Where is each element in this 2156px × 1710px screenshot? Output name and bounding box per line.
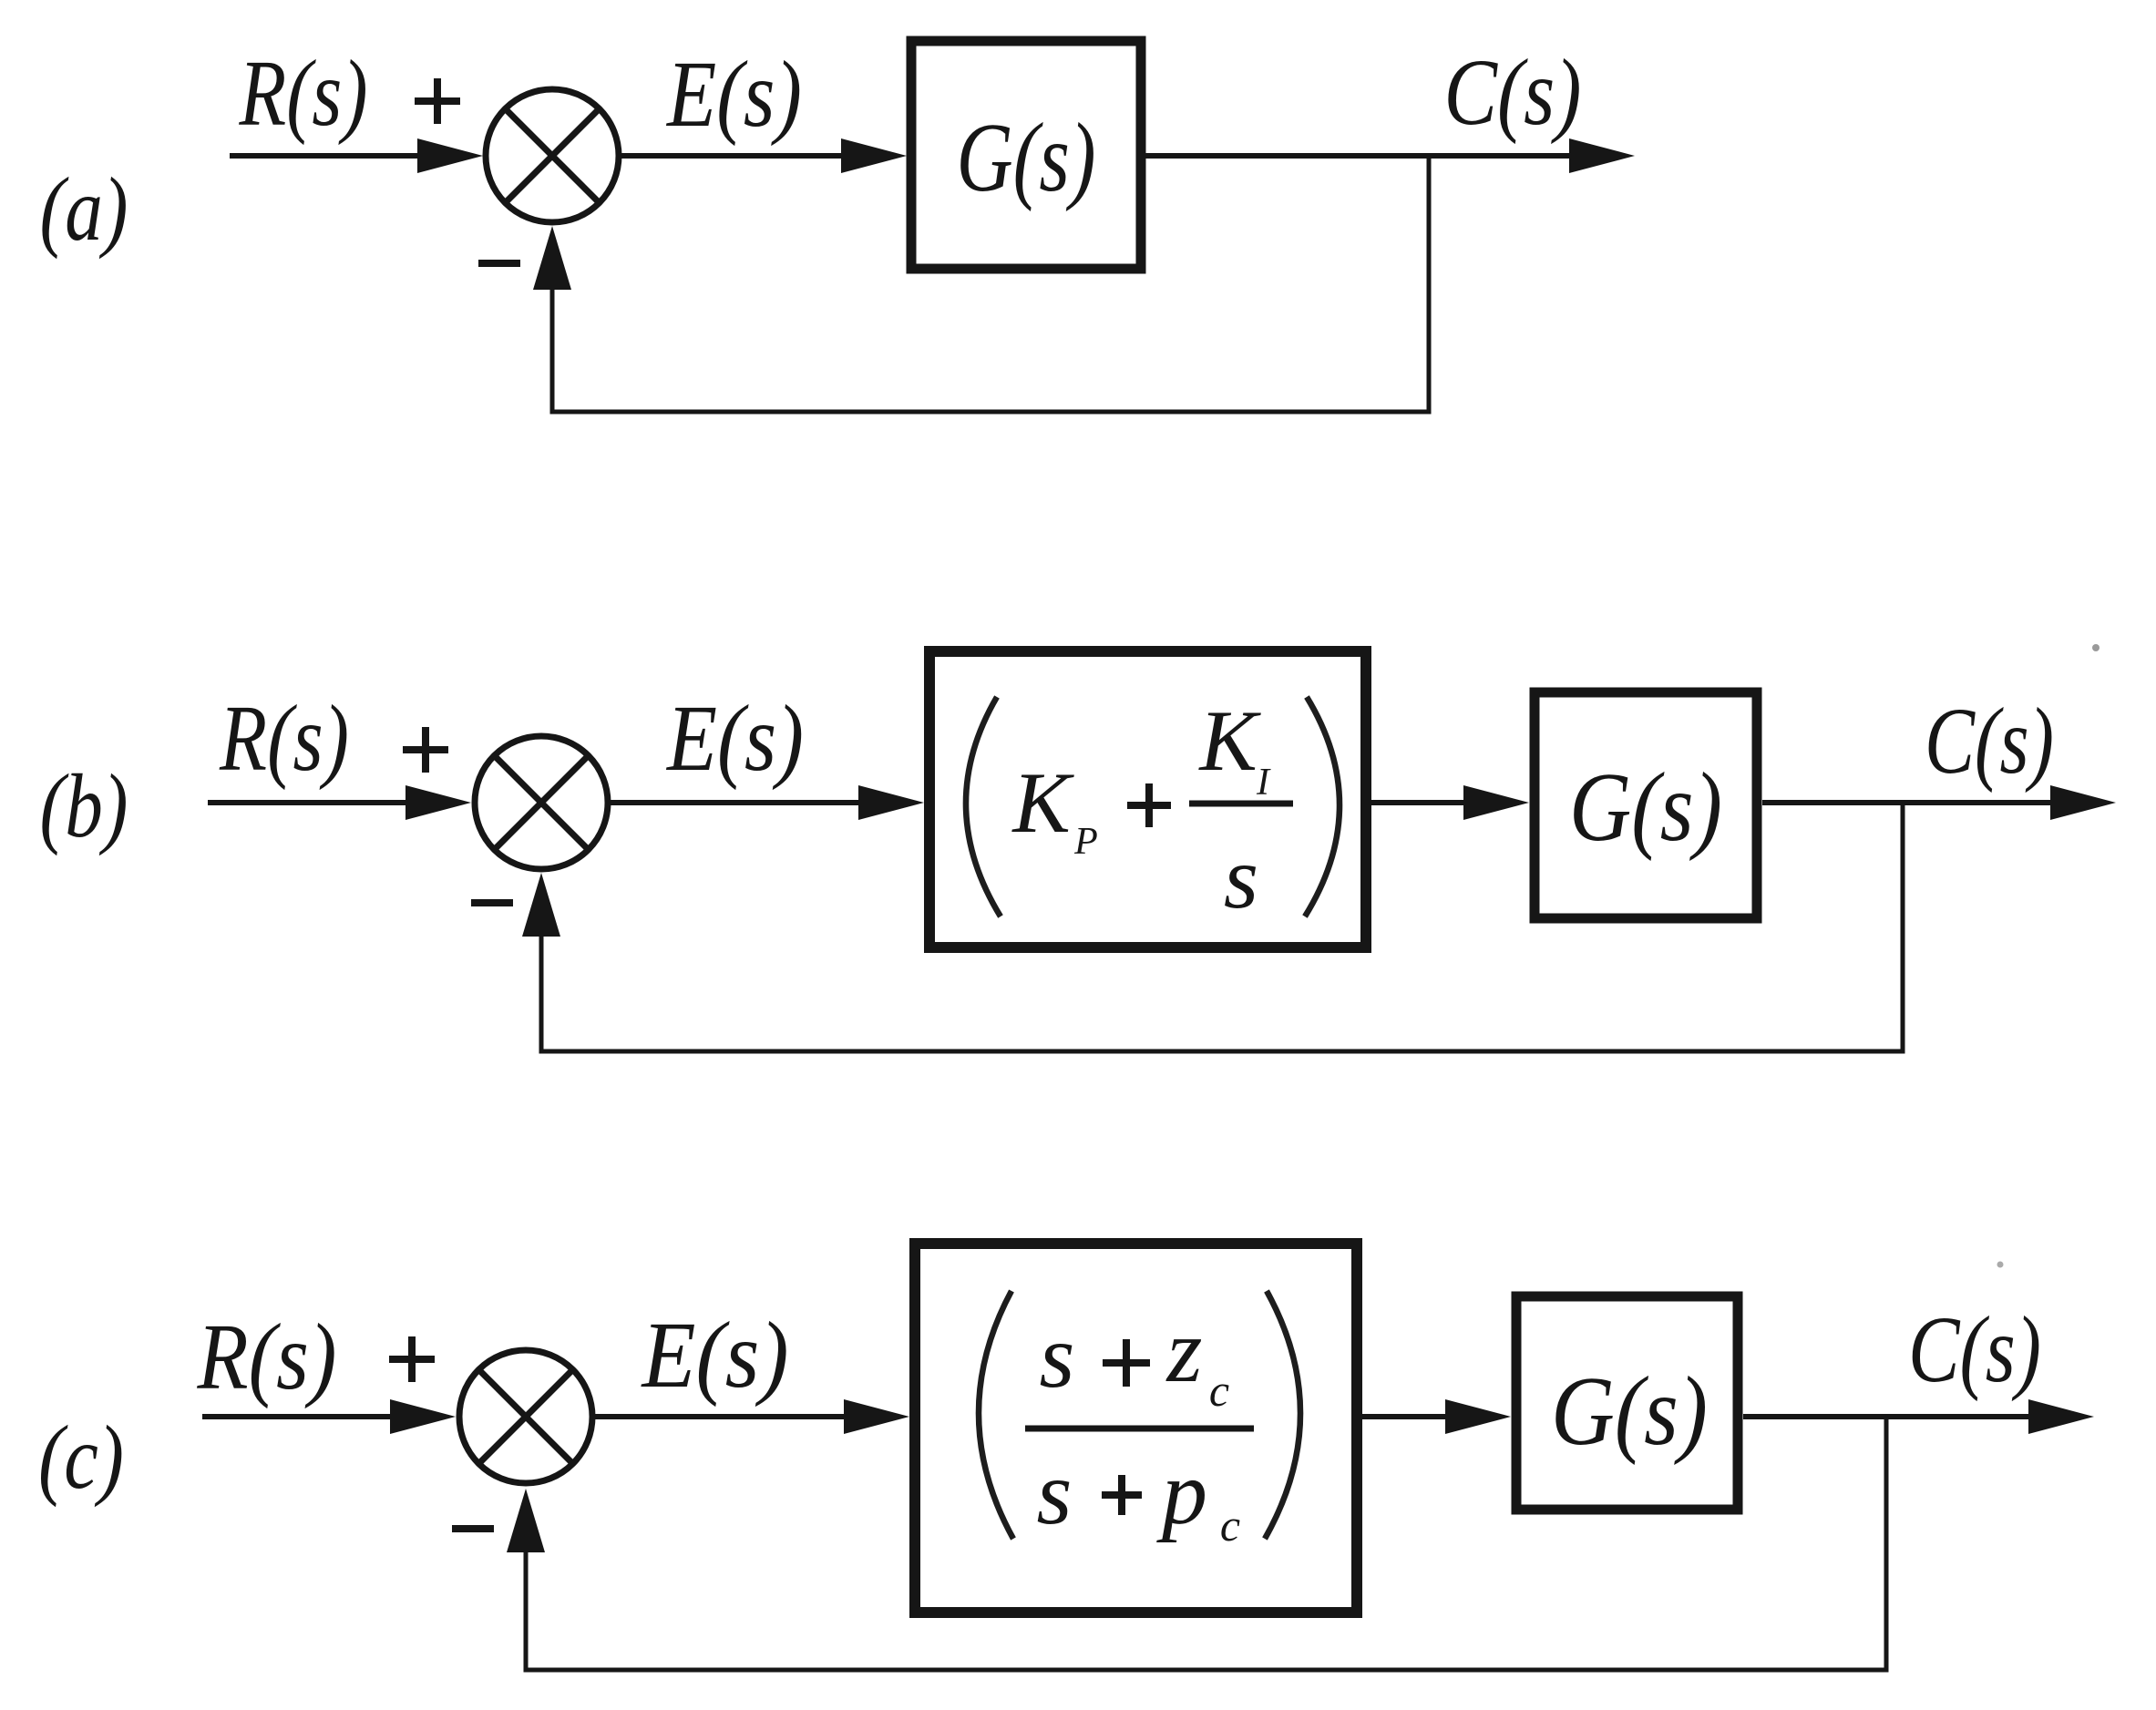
block G2 G(s) (b) — [1535, 692, 1757, 918]
stray dot artifact (b) — [2092, 644, 2100, 651]
svg-text:E(s): E(s) — [665, 42, 802, 147]
svg-text:R(s): R(s) — [219, 686, 349, 791]
plus sign inside PI formula — [1127, 783, 1171, 827]
svg-text:s: s — [1224, 829, 1258, 927]
svg-text:(c): (c) — [38, 1407, 124, 1508]
svg-text:I: I — [1256, 762, 1271, 804]
right parenthesis of compensator formula — [1265, 1291, 1300, 1539]
svg-text:G(s): G(s) — [1569, 753, 1722, 862]
svg-text:G(s): G(s) — [1551, 1357, 1708, 1466]
wire G(s) output to C(s) with arrowhead (a) — [1145, 138, 1635, 173]
minus sign at summing junction (a) — [478, 260, 520, 267]
svg-text:p: p — [1156, 1442, 1207, 1543]
summing junction S3 (c) — [459, 1350, 592, 1483]
block lead-lag compensator (s+zc)/(s+pc) (c) — [915, 1244, 1357, 1613]
wire G(s) output to C(s) with arrowhead (c) — [1743, 1399, 2094, 1434]
wire E(s) to compensator with arrowhead (c) — [592, 1399, 909, 1434]
svg-text:G(s): G(s) — [957, 104, 1096, 212]
arrowhead feedback into summing junction (a) — [533, 226, 571, 290]
summing junction S1 (a) — [486, 89, 619, 222]
svg-text:s: s — [1037, 1442, 1073, 1543]
summing junction S2 (b) — [475, 736, 608, 869]
svg-text:C(s): C(s) — [1908, 1297, 2041, 1402]
wire feedback loop with branch junction (b) — [541, 803, 1903, 1051]
wire E(s) to PI controller with arrowhead (b) — [608, 785, 924, 820]
wire R(s) input with arrowhead (b) — [208, 785, 471, 820]
plus sign at summing junction (a) — [415, 78, 460, 124]
stray dot artifact (c) — [1997, 1262, 2004, 1268]
svg-text:P: P — [1073, 821, 1098, 863]
svg-text:C(s): C(s) — [1444, 40, 1582, 145]
block G1 G(s) (a) — [911, 41, 1141, 269]
fraction bar Ki/s — [1189, 801, 1293, 807]
svg-text:E(s): E(s) — [665, 686, 804, 791]
plus sign denominator — [1102, 1475, 1142, 1515]
svg-text:R(s): R(s) — [197, 1305, 337, 1409]
wire R(s) input with arrowhead (a) — [230, 138, 483, 173]
wire compensator to G(s) with arrowhead (c) — [1362, 1399, 1511, 1434]
svg-text:E(s): E(s) — [641, 1303, 789, 1408]
svg-text:s: s — [1040, 1306, 1075, 1407]
fraction bar (s+zc)/(s+pc) — [1025, 1426, 1254, 1432]
svg-text:K: K — [1197, 692, 1261, 789]
left parenthesis of PI formula — [966, 697, 1001, 916]
svg-text:c: c — [1209, 1365, 1229, 1416]
svg-text:K: K — [1011, 754, 1074, 851]
minus sign at summing junction (c) — [452, 1525, 494, 1532]
arrowhead feedback into summing junction (c) — [507, 1489, 545, 1552]
wire E(s) to G(s) with arrowhead (a) — [619, 138, 907, 173]
svg-text:(a): (a) — [40, 159, 128, 260]
svg-text:c: c — [1220, 1500, 1240, 1551]
wire R(s) input with arrowhead (c) — [202, 1399, 456, 1434]
svg-text:(b): (b) — [40, 755, 128, 856]
wire G(s) output to C(s) with arrowhead (b) — [1762, 785, 2116, 820]
wire PI controller to G(s) with arrowhead (b) — [1371, 785, 1529, 820]
plus sign numerator — [1103, 1339, 1150, 1387]
plus sign at summing junction (c) — [389, 1336, 435, 1382]
wire feedback loop with branch junction (a) — [552, 156, 1429, 412]
minus sign at summing junction (b) — [471, 899, 513, 906]
svg-text:R(s): R(s) — [239, 41, 368, 146]
block PI controller (Kp + Ki/s) (b) — [929, 651, 1366, 947]
left parenthesis of compensator formula — [979, 1291, 1013, 1539]
arrowhead feedback into summing junction (b) — [522, 873, 560, 937]
right parenthesis of PI formula — [1305, 697, 1340, 916]
plus sign at summing junction (b) — [403, 727, 448, 773]
wire feedback loop with branch junction (c) — [526, 1417, 1886, 1670]
block G3 G(s) (c) — [1516, 1296, 1738, 1510]
svg-text:z: z — [1165, 1300, 1203, 1401]
svg-text:C(s): C(s) — [1925, 689, 2054, 794]
